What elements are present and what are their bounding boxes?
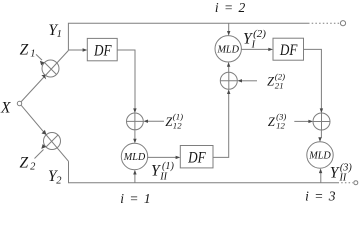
arrowhead into MLD2 bottom: [133, 170, 136, 175]
arrowhead into MLD1 top: [227, 31, 230, 36]
arrowhead Z1 into M1: [40, 61, 45, 66]
svg-text:(2): (2): [253, 28, 266, 40]
svg-text:21: 21: [275, 80, 284, 90]
svg-text:II: II: [339, 172, 347, 183]
multiplier M2 cross chord: [46, 135, 58, 147]
arrowhead into DF1: [83, 48, 88, 51]
wire X to multiplier M1 to Y1 junction: [21, 51, 68, 102]
svg-text:1: 1: [57, 29, 62, 40]
adder A2 plus horizontal: [220, 80, 237, 82]
svg-text:i = 2: i = 2: [215, 0, 246, 15]
wire X to multiplier M2: [21, 105, 69, 161]
svg-text:12: 12: [276, 121, 285, 131]
arrowhead into adder A3 top: [320, 108, 323, 113]
arrowhead into adder A3 left: [308, 120, 313, 123]
wire MLD2 to DF3: [148, 156, 176, 158]
wire adder A1 to MLD2: [134, 130, 136, 140]
multiplier M2: [44, 133, 61, 150]
adder A2: [220, 72, 237, 89]
svg-text:II: II: [159, 172, 167, 183]
adder A1: [126, 113, 143, 130]
svg-text:Z: Z: [268, 115, 275, 129]
adder A3 plus horizontal: [313, 121, 330, 123]
MLD2 circle: [121, 143, 147, 169]
svg-text:DF: DF: [187, 150, 206, 167]
adder A3 plus vertical: [321, 113, 323, 130]
wire Z1 input: [36, 54, 42, 60]
arrowhead into MLD1 bottom: [227, 62, 230, 67]
wire adder A2 to MLD1: [228, 66, 230, 72]
svg-text:i = 3: i = 3: [305, 189, 336, 204]
MLD3 circle: [307, 142, 333, 168]
svg-text:MLD: MLD: [123, 152, 146, 163]
svg-text:MLD: MLD: [308, 151, 331, 162]
wire bottom dotted: [338, 182, 354, 184]
arrowhead into DF3: [176, 156, 181, 159]
arrowhead into MLD3 bottom: [319, 168, 322, 173]
wire Z21(2) input: [242, 80, 258, 82]
wire adder A3 to MLD3: [320, 130, 322, 138]
block DF1: [87, 38, 117, 60]
adder A1 plus horizontal: [127, 120, 144, 122]
arrowhead diagonal into M2: [42, 130, 47, 135]
svg-text:2: 2: [30, 162, 36, 173]
svg-text:2: 2: [56, 176, 62, 187]
block DF2: [273, 38, 304, 60]
svg-text:DF: DF: [279, 42, 298, 59]
svg-text:DF: DF: [93, 42, 112, 59]
wire top dotted: [308, 22, 340, 24]
wire Y1 junction to DF1: [68, 49, 83, 51]
svg-text:i = 1: i = 1: [120, 191, 151, 206]
svg-text:Y: Y: [330, 165, 340, 182]
arrowhead into DF2: [268, 48, 273, 51]
wire top bus to MLD1: [228, 23, 230, 32]
multiplier M1: [42, 60, 59, 77]
wire top bus i=2: [68, 23, 308, 50]
arrowhead into adder A2 right: [237, 79, 242, 82]
MLD1 circle: [215, 36, 241, 62]
wire Y2 corner to bottom bus: [69, 161, 338, 182]
multiplier M1 cross chord: [45, 63, 57, 75]
svg-text:Z: Z: [267, 75, 274, 89]
wire Z2 input: [35, 150, 44, 159]
node bottom-right terminal: [354, 181, 358, 185]
wire Z12(1) input: [148, 120, 165, 122]
wire DF3 output to adder A2: [213, 93, 229, 157]
arrowhead into MLD3 top: [318, 137, 321, 142]
node top-right terminal: [340, 21, 345, 26]
svg-text:MLD: MLD: [216, 44, 239, 55]
svg-text:Z: Z: [20, 155, 29, 172]
wire bottom bus to MLD2: [134, 174, 136, 183]
wire Z12(3) input: [294, 120, 309, 122]
wire MLD1 to DF2: [241, 48, 269, 50]
arrowhead into adder A1 right: [143, 120, 148, 123]
wire DF2 output to adder A3: [304, 49, 322, 109]
arrowhead into MLD2 top: [133, 139, 136, 144]
arrowhead diagonal into M1: [41, 75, 46, 80]
svg-text:Z: Z: [165, 115, 172, 129]
arrowhead into adder A1 top: [133, 108, 136, 113]
arrowhead Z2 into M2: [41, 144, 46, 149]
wire DF1 output to adder A1: [117, 50, 135, 109]
wire bottom bus to MLD3: [320, 172, 322, 182]
arrowhead into adder A2 bottom: [227, 89, 230, 94]
adder A3: [313, 113, 330, 130]
svg-text:1: 1: [30, 48, 35, 59]
svg-text:I: I: [251, 40, 256, 51]
svg-text:Z: Z: [20, 41, 29, 58]
adder A2 plus vertical: [228, 72, 230, 89]
adder A1 plus vertical: [134, 113, 136, 130]
svg-text:12: 12: [173, 121, 182, 131]
block DF3: [180, 146, 213, 168]
node X input terminal: [17, 101, 21, 105]
svg-text:X: X: [0, 99, 11, 116]
